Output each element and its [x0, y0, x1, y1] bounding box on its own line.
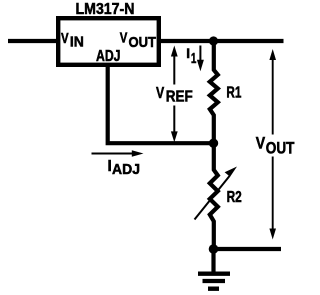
svg-text:V: V — [61, 30, 69, 47]
svg-text:R2: R2 — [227, 189, 242, 206]
wire: input to VIN — [8, 39, 58, 43]
wire: to ground — [211, 249, 215, 272]
svg-text:REF: REF — [166, 88, 193, 105]
regulator U1 LM317-N body — [58, 18, 159, 65]
svg-text:V: V — [256, 135, 265, 153]
wire: ADJ pin down and right — [108, 64, 214, 143]
voltage arrow VREF (double headed) — [156, 46, 193, 143]
wire + resistor R1 zigzag — [210, 41, 218, 143]
wire: bottom right rail — [214, 247, 282, 251]
svg-text:OUT: OUT — [266, 140, 295, 158]
svg-text:ADJ: ADJ — [96, 48, 121, 65]
svg-text:I: I — [186, 46, 190, 61]
ground — [198, 274, 230, 289]
pin VOUT — [120, 30, 156, 51]
svg-text:LM317-N: LM317-N — [76, 1, 135, 18]
node junction dot middle — [209, 139, 218, 148]
svg-text:V: V — [156, 85, 164, 102]
node junction dot top — [209, 36, 218, 45]
svg-text:V: V — [120, 30, 128, 47]
svg-text:OUT: OUT — [129, 34, 157, 51]
svg-text:1: 1 — [191, 50, 197, 67]
node junction dot bottom — [209, 244, 219, 254]
wire: VOUT to right rail — [159, 39, 284, 43]
svg-text:IN: IN — [70, 33, 84, 50]
voltage arrow VOUT (double headed) — [256, 49, 295, 240]
wire + resistor R2 zigzag (variable) — [210, 143, 218, 249]
R2 variable arrow diagonal — [195, 167, 238, 220]
current arrow IADJ — [92, 150, 144, 178]
svg-text:R1: R1 — [226, 85, 241, 102]
pin VIN — [61, 30, 84, 50]
svg-text:ADJ: ADJ — [112, 161, 140, 178]
current arrow I1 — [186, 46, 204, 72]
